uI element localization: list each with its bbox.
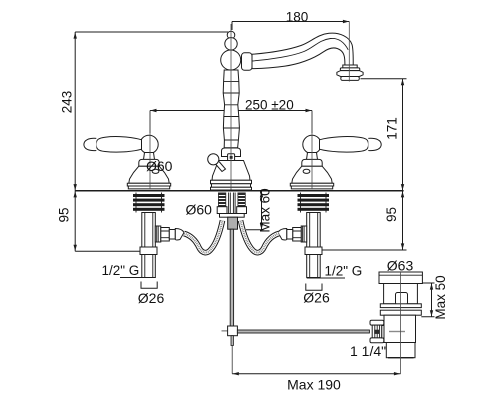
- center stud right: [238, 193, 246, 207]
- svg-text:250 ±20: 250 ±20: [245, 98, 294, 113]
- hose block: [228, 217, 238, 229]
- center base bell: [212, 161, 250, 181]
- rod connector: [228, 326, 238, 336]
- drain lower body: [384, 315, 416, 342]
- left tail thread stack: [133, 193, 165, 213]
- right tail tube: [307, 255, 321, 278]
- left handle lever: [96, 137, 141, 153]
- svg-text:180: 180: [286, 10, 309, 25]
- svg-text:1/2" G: 1/2" G: [325, 264, 363, 279]
- centerline left handle: [149, 111, 151, 190]
- center nut right: [237, 207, 247, 214]
- dim 180: [232, 10, 349, 31]
- overflow square hole: [396, 293, 408, 305]
- centerline spout outlet: [348, 22, 350, 82]
- pop-up knob link: [216, 162, 226, 172]
- svg-text:243: 243: [60, 91, 75, 114]
- center nut left: [217, 207, 227, 214]
- svg-text:Ø60: Ø60: [146, 158, 173, 174]
- svg-text:1/2" G: 1/2" G: [102, 263, 140, 278]
- svg-text:Max 60: Max 60: [258, 188, 273, 232]
- drain washer plate 2: [380, 310, 421, 315]
- svg-text:Max 50: Max 50: [433, 275, 448, 319]
- right handle lever: [320, 137, 369, 153]
- set screw square: [228, 154, 235, 161]
- right hose: [241, 221, 280, 253]
- dim Ø26 left: [138, 282, 165, 307]
- svg-text:Ø26: Ø26: [303, 290, 330, 306]
- center stud left: [218, 193, 226, 207]
- right valve fitting: [301, 226, 307, 242]
- center valve body lines: [229, 193, 236, 214]
- svg-text:Max 190: Max 190: [287, 377, 341, 393]
- spout knuckle: [221, 50, 241, 70]
- dim Max 60: [246, 188, 273, 232]
- dim 171: [361, 79, 407, 191]
- drain tailpipe: [386, 343, 415, 358]
- aerator: [337, 65, 363, 80]
- right bell detail oval: [303, 169, 310, 173]
- drain neck: [384, 284, 418, 304]
- right handle end cap: [368, 138, 381, 150]
- left hose: [184, 221, 223, 253]
- dim Max 50: [421, 275, 448, 319]
- left handle neck: [144, 153, 155, 160]
- mounting plate: [220, 214, 245, 218]
- svg-text:Ø26: Ø26: [138, 290, 165, 306]
- spout tube mid line: [252, 38, 348, 61]
- left tail tube: [142, 255, 156, 278]
- dim 250 +-20: [150, 98, 312, 134]
- right handle neck: [307, 153, 318, 160]
- column rib lines: [223, 81, 239, 140]
- spout finial small ball: [227, 31, 235, 39]
- label 1/2 G right: [307, 264, 363, 279]
- dim 95 right: [322, 191, 407, 250]
- left bell: [129, 166, 169, 183]
- pivot nut knurled waist: [372, 325, 382, 338]
- rod connector side dash: [222, 330, 228, 332]
- label 1/2 G left: [102, 263, 156, 278]
- drain flange: [379, 272, 422, 284]
- dim Max 190: [232, 372, 400, 393]
- rod pin: [231, 336, 233, 346]
- right tail thread stack: [298, 193, 330, 213]
- right bell: [292, 166, 332, 183]
- center base flange: [211, 180, 252, 184]
- dim Ø26 right: [303, 284, 330, 306]
- svg-text:171: 171: [385, 117, 400, 140]
- centerline drain: [400, 272, 402, 374]
- pivot nut bottom cap: [370, 338, 384, 343]
- svg-text:Ø60: Ø60: [186, 202, 213, 218]
- left tail collar: [140, 247, 157, 255]
- left bell cap: [139, 159, 159, 166]
- right handle ball: [303, 135, 321, 153]
- svg-text:95: 95: [57, 207, 72, 222]
- horizontal pop-up rod: [237, 330, 369, 333]
- spout collar: [242, 53, 253, 71]
- left bell flange: [127, 183, 170, 186]
- right shank pipe: [307, 213, 321, 248]
- svg-text:95: 95: [384, 207, 399, 222]
- pivot washer: [382, 326, 386, 339]
- left handle ball: [140, 135, 158, 153]
- right bell cap: [302, 159, 322, 166]
- centerline spout column: [230, 24, 232, 190]
- right tail collar: [305, 247, 322, 255]
- left valve fitting: [155, 226, 161, 242]
- svg-text:Ø63: Ø63: [387, 258, 414, 274]
- pop-up rod vertical: [230, 229, 233, 326]
- spout tube: [252, 33, 353, 68]
- deck line: [75, 190, 403, 192]
- svg-text:1 1/4": 1 1/4": [350, 343, 386, 359]
- left handle end cap: [84, 138, 96, 150]
- right bell flange: [290, 183, 333, 186]
- dim 95 left: [57, 191, 141, 252]
- pop-up knob: [208, 154, 219, 165]
- drain washer plate 1: [380, 304, 421, 308]
- centerline right handle: [311, 111, 313, 190]
- spout column: [223, 70, 239, 148]
- left bell detail oval: [152, 169, 159, 173]
- pivot nut top cap: [370, 320, 384, 325]
- spout finial ball: [225, 38, 237, 50]
- column base cap: [222, 148, 241, 157]
- left shank pipe: [142, 213, 156, 248]
- rod lower centerline: [231, 346, 233, 374]
- dim 243: [60, 32, 229, 191]
